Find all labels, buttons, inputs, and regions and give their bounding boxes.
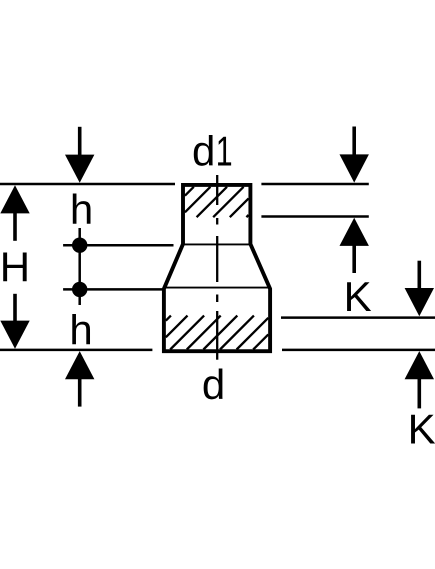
arrow h top (down) — [65, 127, 94, 183]
node dot 2 — [72, 282, 87, 297]
K top reference line — [261, 215, 368, 218]
weld transition line lower — [165, 287, 269, 289]
svg-text:1: 1 — [216, 128, 233, 175]
node vertical link — [78, 228, 81, 305]
svg-text:h: h — [70, 186, 93, 233]
svg-text:d: d — [192, 128, 215, 175]
hatching upper socket — [185, 187, 249, 217]
arrow h bottom (up) — [65, 351, 94, 407]
arrow H top (up) — [0, 185, 29, 241]
weld transition line upper — [184, 243, 251, 245]
bottom reference line right — [282, 349, 435, 352]
arrow H bottom (down) — [0, 294, 29, 349]
arrow K1 bottom (up) — [340, 218, 369, 273]
svg-text:K: K — [408, 405, 435, 452]
K bottom upper reference line — [281, 316, 435, 319]
arrow K2 bottom (up) — [405, 351, 434, 408]
reducer body outline — [164, 185, 270, 351]
top reference line left — [0, 183, 175, 186]
node line h2 — [63, 288, 164, 291]
top reference line right — [261, 183, 368, 186]
arrow K1 top (down) — [340, 127, 369, 183]
svg-text:d: d — [202, 361, 225, 408]
svg-text:h: h — [69, 306, 92, 353]
node dot 1 — [72, 238, 87, 253]
node line h1 — [63, 244, 173, 247]
bottom reference line left — [0, 349, 152, 352]
svg-text:H: H — [0, 243, 30, 290]
arrow K2 top (down) — [405, 261, 434, 317]
svg-text:K: K — [344, 273, 372, 320]
centerline axis — [216, 175, 218, 360]
hatching lower socket — [166, 316, 268, 350]
